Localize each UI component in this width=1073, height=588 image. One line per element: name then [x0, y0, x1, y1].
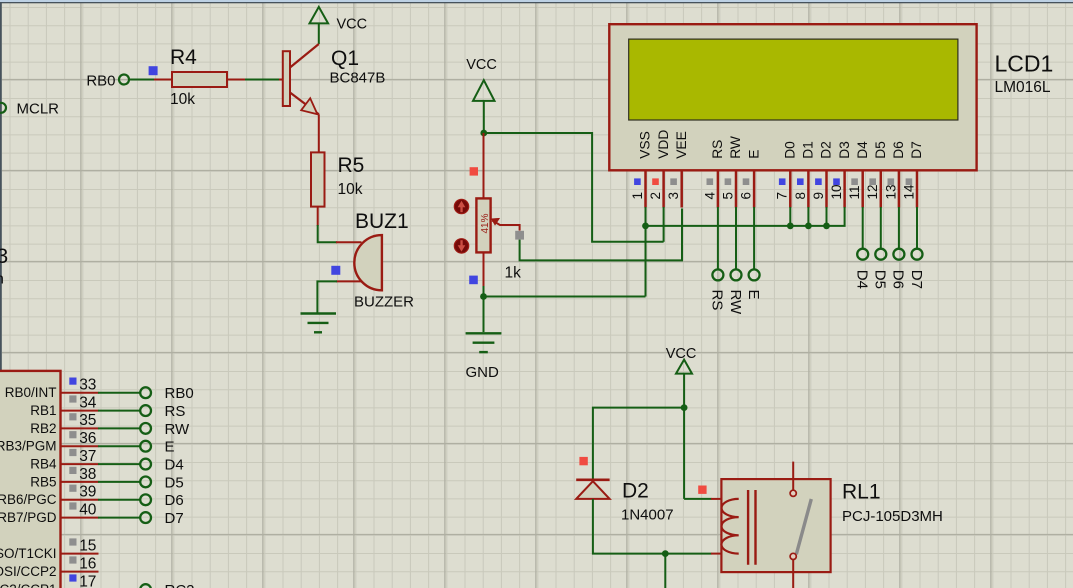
svg-text:n: n — [0, 271, 4, 288]
svg-text:15: 15 — [79, 537, 96, 554]
svg-text:33: 33 — [79, 377, 96, 394]
wire LCD pin 6 to terminal E — [753, 207, 755, 270]
svg-text:R4: R4 — [170, 46, 197, 69]
svg-text:D4: D4 — [855, 141, 870, 159]
LCD1 pin 2 (VDD) — [648, 130, 671, 208]
svg-text:RB0: RB0 — [165, 385, 194, 402]
svg-text:RB3/PGM: RB3/PGM — [0, 439, 57, 454]
terminal D6 (below LCD) — [890, 249, 907, 289]
wire RV1 bottom to ground and to LCD VSS net — [484, 286, 646, 332]
transistor Q1 — [279, 44, 319, 152]
svg-text:10k: 10k — [170, 91, 195, 108]
svg-text:10: 10 — [829, 184, 844, 199]
terminal D7 (PIC port B row) — [140, 510, 183, 527]
U1 pin 36 (RB3/PGM) — [0, 430, 99, 454]
LCD1 pin 8 (D1) — [793, 141, 816, 207]
ground (below buzzer) — [301, 314, 337, 333]
terminal MCLR (partial, left edge) — [0, 101, 59, 118]
svg-text:D7: D7 — [165, 510, 184, 527]
microcontroller U1 body (partial) — [0, 371, 61, 588]
U1 pin 34 (RB1) — [30, 394, 98, 418]
wire BUZ1 to ground — [317, 281, 337, 313]
svg-text:RB1: RB1 — [30, 403, 56, 418]
U1 pin 17 (RC2/CCP1) — [0, 573, 99, 588]
LCD1 pin 3 (VEE) — [666, 131, 689, 207]
svg-text:RB0: RB0 — [86, 73, 115, 90]
svg-text:RB2: RB2 — [30, 421, 56, 436]
svg-text:RC2/CCP1: RC2/CCP1 — [0, 582, 57, 588]
svg-text:MCLR: MCLR — [17, 101, 60, 118]
power VCC (middle) — [466, 57, 497, 133]
svg-text:D3: D3 — [837, 141, 852, 159]
junction node at VCC/RV1 — [480, 130, 487, 137]
RV1 wiper drag handle (gray) — [515, 231, 524, 240]
U1 pin 38 (RB5) — [30, 466, 98, 490]
U1 pin 16 (RC1/T1OSI/CCP2) — [0, 555, 99, 579]
svg-text:D7: D7 — [908, 270, 925, 289]
terminal RS (PIC port B row) — [140, 403, 185, 420]
wire LCD pin 11 to terminal D4 — [862, 207, 864, 249]
svg-text:RB6/PGC: RB6/PGC — [0, 492, 57, 507]
LCD U: LCD1 body — [609, 24, 976, 170]
pin state marker (red) at RV1 top — [470, 167, 478, 175]
svg-text:40: 40 — [79, 501, 97, 518]
U1 pin 35 (RB2) — [30, 412, 98, 436]
ground GND (middle) — [466, 333, 502, 381]
svg-text:41%: 41% — [480, 213, 491, 233]
terminal RB0 (PIC port B row) — [140, 385, 193, 402]
svg-text:10k: 10k — [338, 181, 363, 198]
LCD1 pin 12 (D5) — [865, 141, 888, 208]
terminal D4 (PIC port B row) — [140, 457, 183, 474]
svg-text:D2: D2 — [622, 480, 649, 503]
svg-text:D6: D6 — [890, 270, 907, 289]
wire U1 pin 36 to terminal E — [98, 445, 140, 447]
svg-text:17: 17 — [79, 573, 96, 588]
svg-text:RW: RW — [165, 421, 191, 438]
svg-text:D4: D4 — [854, 270, 871, 289]
svg-text:D7: D7 — [909, 141, 924, 159]
svg-text:39: 39 — [79, 484, 96, 501]
LCD1 pin 14 (D7) — [901, 141, 924, 207]
terminal RW (PIC port B row) — [140, 421, 190, 438]
LCD1 pin 10 (D3) — [829, 141, 852, 208]
LCD1 pin 9 (D2) — [811, 141, 834, 207]
LCD1 pin 11 (D4) — [847, 141, 870, 208]
svg-text:RW: RW — [728, 136, 743, 159]
terminal RC2 — [140, 582, 194, 588]
wire VCC to relay coil / D2 cathode — [593, 374, 712, 499]
U1 pin 39 (RB6/PGC) — [0, 484, 99, 508]
svg-text:BC847B: BC847B — [330, 70, 386, 87]
svg-text:RC1/T1OSI/CCP2: RC1/T1OSI/CCP2 — [0, 564, 57, 579]
wire U1 pin 38 to terminal D5 — [98, 481, 140, 483]
junction node at D2/relay bottom — [662, 550, 669, 557]
svg-text:5: 5 — [720, 192, 735, 200]
svg-text:35: 35 — [79, 412, 96, 429]
wire LCD pin 13 to terminal D6 — [898, 207, 900, 249]
svg-text:D6: D6 — [165, 492, 184, 509]
buzzer BUZ1 — [336, 235, 382, 290]
svg-text:RL1: RL1 — [842, 481, 881, 504]
svg-text:VEE: VEE — [674, 131, 689, 159]
wire VCC to VDD (pin2 net) — [484, 133, 664, 242]
junction node VCC bottom — [681, 404, 688, 411]
svg-text:3: 3 — [0, 245, 8, 268]
terminal RB0 — [86, 73, 129, 90]
wire VDD pin2 drop — [663, 207, 665, 242]
LCD1 pin 7 (D0) — [775, 141, 798, 208]
svg-text:E: E — [746, 150, 761, 159]
svg-text:RB5: RB5 — [30, 474, 56, 489]
relay RL1 — [711, 462, 831, 588]
terminal D5 (PIC port B row) — [140, 474, 183, 491]
terminal D6 (PIC port B row) — [140, 492, 183, 509]
wire U1 pin 39 to terminal D6 — [98, 499, 140, 501]
wire U1 pin 35 to terminal RW — [98, 427, 140, 429]
svg-text:8: 8 — [793, 192, 808, 200]
svg-text:14: 14 — [901, 184, 916, 200]
svg-text:3: 3 — [666, 192, 681, 200]
wire U1 pin 37 to terminal D4 — [98, 463, 140, 465]
resistor R4 — [154, 72, 246, 87]
pin state marker (blue) at BUZ1 — [331, 266, 340, 275]
RL1 core — [747, 490, 749, 565]
svg-text:D4: D4 — [165, 457, 184, 474]
RV1 down actuator button — [454, 239, 468, 253]
svg-text:RB4: RB4 — [30, 457, 57, 472]
junction node at RV1 bottom / GND — [480, 293, 487, 300]
svg-text:9: 9 — [811, 192, 826, 200]
svg-text:PCJ-105D3MH: PCJ-105D3MH — [842, 508, 943, 525]
svg-text:D5: D5 — [873, 141, 888, 159]
svg-text:RC0/T1OSO/T1CKI: RC0/T1OSO/T1CKI — [0, 546, 57, 561]
svg-text:VCC: VCC — [337, 17, 368, 33]
svg-text:RW: RW — [727, 290, 744, 316]
svg-text:LM016L: LM016L — [995, 79, 1051, 96]
svg-text:RS: RS — [165, 403, 186, 420]
svg-text:VDD: VDD — [656, 130, 671, 159]
svg-text:D5: D5 — [165, 474, 184, 491]
wire D2 anode to relay coil bottom — [593, 499, 712, 588]
svg-text:VCC: VCC — [466, 57, 497, 73]
wire RV1 wiper to VEE (pin3 net) — [520, 209, 682, 261]
svg-text:LCD1: LCD1 — [995, 51, 1054, 77]
svg-text:1k: 1k — [505, 265, 522, 282]
svg-text:12: 12 — [865, 184, 880, 199]
RV1 up actuator button — [454, 199, 468, 213]
U1 pin 37 (RB4) — [30, 448, 98, 472]
U1 pin 15 (RC0/T1OSO/T1CKI) — [0, 537, 99, 561]
terminal RS (below LCD) — [709, 269, 726, 310]
svg-text:E: E — [165, 439, 175, 456]
svg-text:2: 2 — [648, 192, 663, 200]
svg-text:RB7/PGD: RB7/PGD — [0, 510, 57, 525]
LCD1 pin 13 (D6) — [883, 141, 906, 208]
svg-text:D5: D5 — [872, 270, 889, 289]
RL1 coil — [721, 499, 738, 554]
svg-text:RS: RS — [709, 290, 726, 311]
wire LCD pin 12 to terminal D5 — [880, 207, 882, 249]
pin state marker (red) at RL1 coil — [698, 486, 706, 494]
terminal RW (below LCD) — [727, 269, 744, 315]
wire LCD pin 4 to terminal RS — [717, 207, 719, 270]
svg-text:34: 34 — [79, 394, 97, 411]
svg-text:D2: D2 — [819, 141, 834, 159]
LCD1 pin 4 (RS) — [702, 140, 725, 208]
svg-text:RC2: RC2 — [165, 582, 195, 588]
svg-text:RB0/INT: RB0/INT — [5, 385, 57, 400]
wire U1 pin 34 to terminal RS — [98, 410, 140, 412]
RL1 switch — [792, 462, 794, 490]
svg-text:37: 37 — [79, 448, 96, 465]
svg-text:R5: R5 — [338, 154, 365, 177]
LCD1 pin 6 (E) — [739, 150, 762, 208]
junction node D2 — [823, 223, 830, 230]
svg-text:11: 11 — [847, 185, 862, 199]
svg-text:D0: D0 — [783, 141, 798, 159]
LCD1 pin 1 (VSS) — [630, 131, 653, 207]
svg-text:D1: D1 — [801, 141, 816, 159]
terminal E (PIC port B row) — [140, 439, 174, 456]
terminal D5 (below LCD) — [872, 249, 889, 289]
svg-text:36: 36 — [79, 430, 96, 447]
svg-text:7: 7 — [775, 192, 790, 200]
wire U1 pin 33 to terminal RB0 — [98, 392, 140, 394]
svg-text:BUZZER: BUZZER — [354, 294, 414, 311]
wire LCD pin 5 to terminal RW — [735, 207, 737, 270]
svg-text:6: 6 — [739, 192, 754, 200]
power VCC (top) — [310, 7, 368, 44]
U1 pin 33 (RB0/INT) — [5, 377, 99, 401]
svg-text:13: 13 — [883, 184, 898, 199]
svg-text:VSS: VSS — [638, 131, 653, 159]
wire R4 to Q1 base — [245, 79, 281, 81]
junction node VSS bus — [642, 223, 649, 230]
pin state marker (blue) at RV1 bottom — [469, 276, 478, 285]
potentiometer RV1 — [476, 133, 490, 287]
LCD1 pin 5 (RW) — [720, 136, 743, 207]
resistor R5 — [311, 152, 325, 226]
svg-text:38: 38 — [79, 466, 96, 483]
svg-text:GND: GND — [466, 364, 500, 381]
wire VSS/D0-D3 ground bus — [646, 207, 845, 297]
junction node D1 — [805, 223, 812, 230]
svg-text:16: 16 — [79, 555, 96, 572]
RV1 wiper arm — [491, 218, 519, 230]
svg-text:VCC: VCC — [666, 346, 697, 362]
svg-text:1: 1 — [630, 192, 645, 200]
terminal D7 (below LCD) — [908, 249, 925, 289]
power VCC (bottom) — [666, 346, 697, 374]
wire R5 to BUZ1 — [318, 225, 337, 242]
wire RB0 to R4 — [129, 79, 155, 81]
wire U1 pin 40 to terminal D7 — [98, 517, 140, 519]
svg-text:RS: RS — [710, 140, 725, 159]
U1 pin 40 (RB7/PGD) — [0, 501, 99, 525]
junction node D0 — [787, 223, 794, 230]
svg-text:Q1: Q1 — [331, 47, 359, 70]
pin state marker (blue) at RB0 wire — [149, 66, 158, 75]
svg-text:4: 4 — [702, 192, 717, 200]
pin state marker (red) at D2 — [579, 457, 587, 465]
terminal E (below LCD) — [745, 269, 762, 299]
wire LCD pin 14 to terminal D7 — [916, 207, 918, 249]
terminal D4 (below LCD) — [854, 249, 871, 289]
svg-text:D6: D6 — [891, 141, 906, 159]
LCD1 screen — [629, 39, 958, 120]
diode D2 — [576, 480, 609, 499]
svg-text:E: E — [745, 290, 762, 300]
svg-text:1N4007: 1N4007 — [621, 507, 674, 524]
svg-text:BUZ1: BUZ1 — [355, 210, 409, 233]
